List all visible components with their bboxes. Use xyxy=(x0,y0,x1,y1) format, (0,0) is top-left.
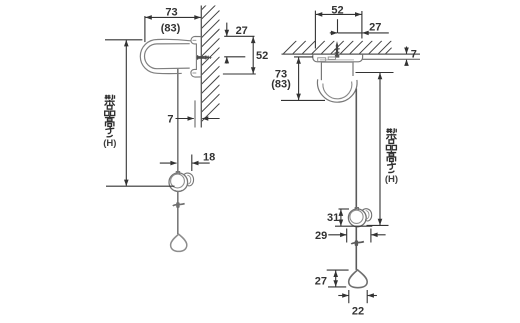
svg-text:52: 52 xyxy=(331,4,343,16)
svg-text:52: 52 xyxy=(256,50,268,62)
svg-text:7: 7 xyxy=(167,114,173,126)
svg-text:73: 73 xyxy=(165,7,177,19)
svg-text:18: 18 xyxy=(203,152,215,164)
svg-text:31: 31 xyxy=(327,212,339,224)
svg-text:(83): (83) xyxy=(271,78,291,90)
svg-text:27: 27 xyxy=(315,275,327,287)
svg-text:(H): (H) xyxy=(103,138,116,149)
svg-text:(83): (83) xyxy=(161,22,181,34)
svg-text:27: 27 xyxy=(369,22,381,34)
svg-text:7: 7 xyxy=(411,48,417,60)
svg-text:22: 22 xyxy=(352,305,364,317)
svg-text:(H): (H) xyxy=(385,174,398,185)
svg-text:29: 29 xyxy=(315,230,327,242)
svg-text:27: 27 xyxy=(236,25,248,37)
